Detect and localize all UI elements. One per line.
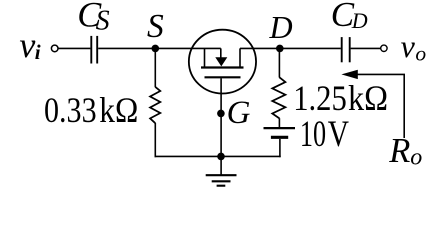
- svg-text:o: o: [415, 41, 426, 65]
- svg-text:S: S: [147, 8, 164, 45]
- svg-text:D: D: [269, 9, 293, 45]
- svg-text:o: o: [410, 144, 422, 170]
- transistor Q1 bulk arrowhead: [215, 57, 227, 66]
- svg-text:D: D: [351, 8, 368, 33]
- wire S node down to RS: [154, 48, 156, 87]
- svg-text:R: R: [388, 132, 410, 170]
- transistor Q1 gate bar: [205, 76, 241, 78]
- wire Cd to vo: [351, 47, 381, 49]
- transistor Q1 drain stub: [239, 48, 241, 67]
- wire Cs to FET source-bulk: [98, 47, 221, 49]
- svg-text:10: 10: [300, 113, 326, 154]
- resistor R2 1.25k zigzag: [272, 77, 285, 118]
- resistor R1 0.33k zigzag: [150, 87, 160, 123]
- ground bar 1: [206, 174, 237, 176]
- wire battery to rail: [279, 139, 281, 157]
- wire ground rail: [155, 155, 281, 157]
- ground bar 3: [217, 185, 226, 187]
- svg-text:kΩ: kΩ: [348, 78, 388, 118]
- svg-text:i: i: [35, 40, 41, 64]
- svg-text:v: v: [19, 25, 35, 65]
- wire D node down to RD: [278, 48, 280, 77]
- wire RS to rail: [154, 123, 156, 157]
- capacitor CD: [342, 37, 350, 62]
- svg-text:S: S: [96, 6, 110, 37]
- ground bar 2: [212, 180, 231, 182]
- wire RD to battery: [278, 118, 280, 128]
- ground symbol stub: [220, 156, 222, 175]
- svg-text:1.25: 1.25: [293, 78, 347, 118]
- battery V1 short plate: [271, 136, 288, 139]
- svg-text:kΩ: kΩ: [99, 90, 138, 130]
- node G junction dot: [217, 110, 225, 118]
- transistor Q1 bulk arrow shaft: [220, 48, 222, 58]
- svg-text:V: V: [328, 113, 349, 154]
- node D junction dot: [276, 45, 284, 53]
- capacitor CS: [91, 36, 97, 64]
- svg-text:v: v: [401, 28, 416, 64]
- wire FET drain to Cd: [240, 47, 341, 49]
- wire gate lead to ground rail: [220, 78, 222, 156]
- node vo terminal: [381, 45, 387, 51]
- transistor Q1 body circle: [189, 30, 256, 94]
- Ro probe arrow bent line: [357, 74, 405, 138]
- wire vi to Cs: [58, 47, 90, 49]
- svg-text:0.33: 0.33: [44, 90, 97, 130]
- transistor Q1 channel bar: [201, 66, 244, 68]
- svg-text:G: G: [227, 95, 251, 131]
- Ro probe arrowhead: [341, 70, 357, 79]
- node vi terminal: [51, 45, 58, 52]
- node ground junction dot: [217, 153, 225, 161]
- node S junction dot: [152, 45, 160, 53]
- battery V1 long plate: [264, 127, 296, 129]
- transistor Q1 source stub: [204, 48, 206, 67]
